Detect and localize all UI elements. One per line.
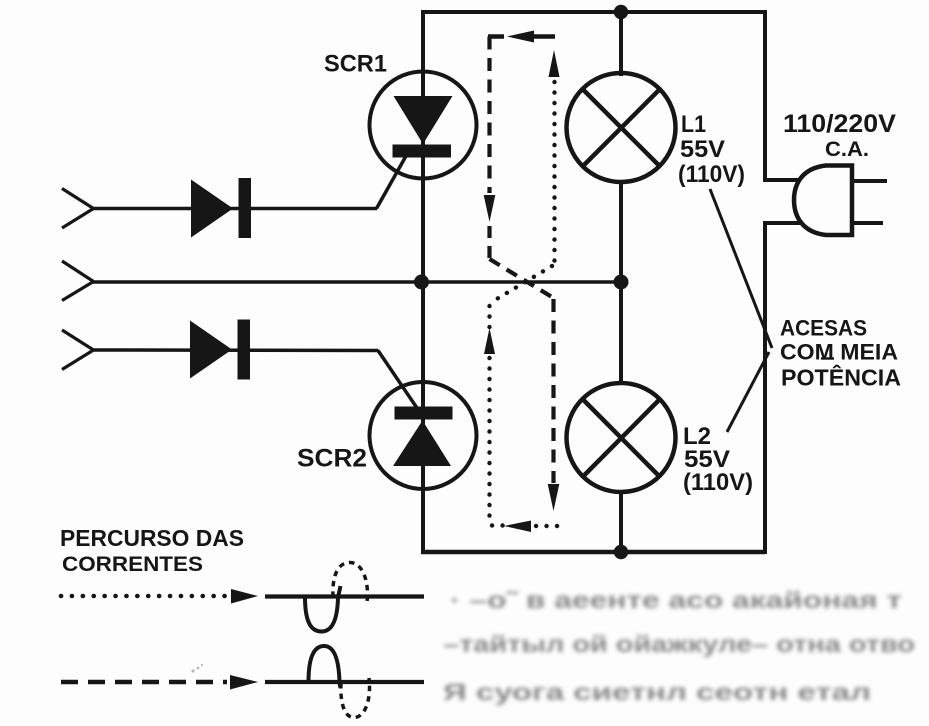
wire gate diagonal to SCR2 bbox=[378, 351, 417, 409]
dotted current path up arrowhead bbox=[484, 328, 495, 354]
legend waveform 2 solid positive halfcycle bbox=[309, 646, 341, 688]
diode D2 bbox=[190, 320, 250, 380]
dashed current path diagonal bbox=[490, 259, 554, 298]
dashed current path bottom arrowhead bbox=[548, 484, 560, 511]
plug P1 body bbox=[794, 166, 852, 236]
node left middle junction bbox=[414, 275, 429, 290]
svg-text:COM MEIA: COM MEIA bbox=[780, 340, 898, 365]
svg-text:–тайтыл ой ойажкуле– отна отво: –тайтыл ой ойажкуле– отна отво bbox=[443, 631, 915, 657]
svg-text:SCR2: SCR2 bbox=[297, 445, 367, 473]
wire right rail upper bbox=[763, 10, 767, 180]
legend waveform 1 axis bbox=[265, 594, 424, 598]
wire left rail bbox=[421, 10, 425, 552]
plug connection bottom bbox=[763, 221, 803, 225]
label 110/220V C.A. bbox=[783, 110, 896, 161]
svg-text:(110V): (110V) bbox=[683, 469, 753, 496]
wire gate row 1 bbox=[93, 207, 377, 211]
dashed current path upper vertical bbox=[487, 37, 491, 194]
wire lamp branch lower bbox=[619, 490, 623, 552]
dashed current path top arrow bbox=[488, 31, 555, 43]
plug prong bottom bbox=[852, 221, 883, 225]
svg-text:L1: L1 bbox=[681, 111, 706, 138]
node top junction bbox=[614, 5, 628, 19]
svg-text:ACESAS: ACESAS bbox=[780, 316, 867, 341]
legend dotted arrow line bbox=[61, 594, 229, 599]
legend dotted arrowhead bbox=[231, 589, 258, 604]
callout line to L2 bbox=[727, 352, 769, 432]
wire middle horizontal bbox=[93, 280, 621, 284]
legend waveform 2 dotted negative halfcycle bbox=[341, 678, 370, 718]
wire right rail lower bbox=[763, 223, 767, 554]
dotted current path bottom tail dots bbox=[536, 524, 559, 528]
dashed current path lower vertical bbox=[551, 299, 555, 483]
terminal input 2 bbox=[62, 261, 94, 301]
terminal input 3 bbox=[62, 330, 94, 370]
terminal input 1 bbox=[62, 189, 94, 229]
dotted current path top arrowhead bbox=[549, 50, 560, 77]
svg-text:SCR1: SCR1 bbox=[324, 51, 387, 78]
callout line to L1 bbox=[710, 189, 772, 348]
svg-text:CORRENTES: CORRENTES bbox=[62, 553, 203, 576]
label L2 bbox=[683, 423, 753, 496]
lamp L2 bbox=[567, 383, 676, 492]
legend dashed arrow line bbox=[61, 680, 227, 684]
wire top rail bbox=[423, 10, 765, 14]
dotted current path upper vertical bbox=[552, 82, 556, 261]
dotted current path short vertical above arrow bbox=[487, 306, 491, 327]
node bottom junction bbox=[614, 545, 628, 559]
node right middle junction bbox=[614, 275, 629, 290]
svg-text:55V: 55V bbox=[680, 136, 725, 163]
wire gate row 3 bbox=[93, 348, 379, 352]
dashed current path mid vertical bbox=[487, 226, 491, 258]
wire gate diagonal to SCR1 bbox=[377, 156, 407, 209]
dotted current path lower vertical bbox=[487, 358, 491, 523]
svg-text:POTÊNCIA: POTÊNCIA bbox=[781, 364, 901, 391]
legend dashed arrowhead bbox=[230, 675, 258, 690]
legend waveform 2 axis bbox=[265, 680, 424, 684]
wire lamp branch upper bbox=[619, 12, 623, 76]
thyristor SCR2 bbox=[370, 382, 477, 489]
dashed current path down arrowhead bbox=[484, 195, 496, 222]
svg-text:(110V): (110V) bbox=[678, 161, 745, 188]
wire lamp branch middle bbox=[619, 181, 623, 385]
dotted current path left arrowhead bbox=[504, 521, 531, 533]
plug connection top bbox=[763, 178, 798, 182]
dotted current path bottom horizontal bbox=[492, 523, 505, 527]
svg-text:110/220V: 110/220V bbox=[783, 110, 896, 138]
label ACESAS COM MEIA POTENCIA bbox=[780, 316, 901, 391]
dotted current path diagonal bbox=[490, 266, 552, 303]
plug prong top bbox=[852, 179, 887, 183]
label L1 bbox=[678, 111, 745, 188]
legend waveform 1 solid negative halfcycle bbox=[305, 586, 341, 632]
legend waveform 1 dotted positive halfcycle bbox=[333, 563, 368, 603]
bleedthrough faint text rows bbox=[443, 587, 915, 705]
svg-text:Я суога сиетнл сеотн етал: Я суога сиетнл сеотн етал bbox=[443, 679, 871, 705]
svg-text:· –о˜ в аеенте асо акайоная т: · –о˜ в аеенте асо акайоная т bbox=[450, 587, 902, 613]
svg-text:C.A.: C.A. bbox=[825, 138, 869, 161]
svg-text:PERCURSO DAS: PERCURSO DAS bbox=[60, 525, 244, 551]
wire bottom rail bbox=[421, 550, 765, 555]
diode D1 bbox=[191, 178, 251, 238]
thyristor SCR1 bbox=[370, 72, 477, 179]
stray ink smudge bbox=[191, 664, 203, 673]
lamp L1 bbox=[567, 73, 676, 182]
